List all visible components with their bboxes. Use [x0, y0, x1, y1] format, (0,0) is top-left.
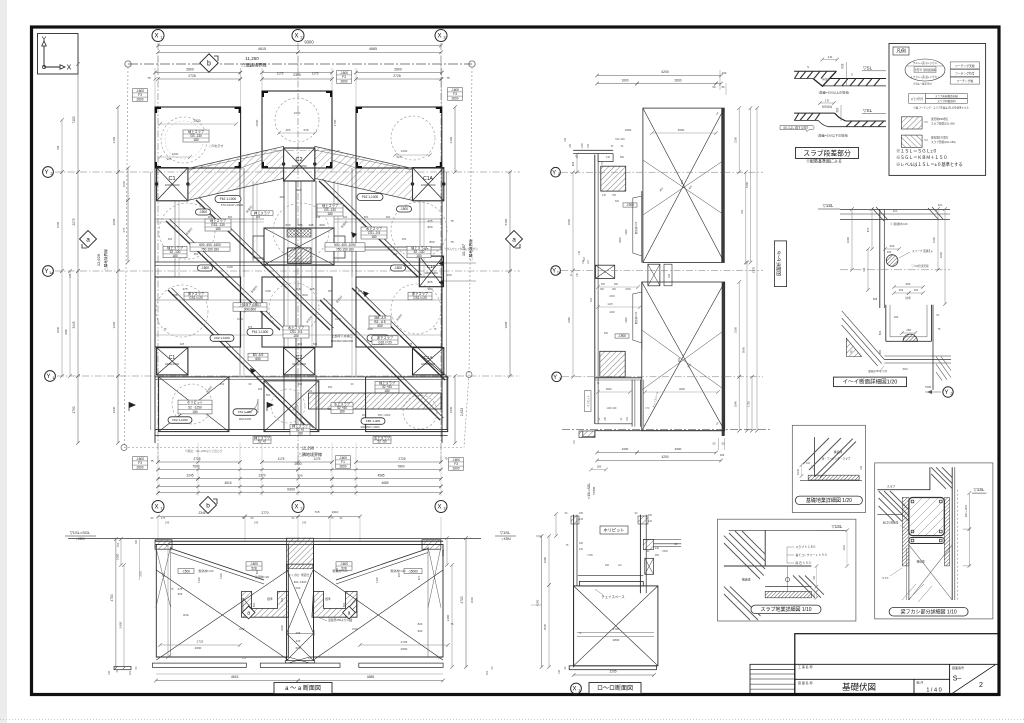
- svg-text:スラブ天端(1SL-150): スラブ天端(1SL-150): [931, 140, 956, 144]
- svg-text:7600: 7600: [192, 464, 199, 468]
- svg-text:1: 1: [160, 36, 162, 40]
- svg-text:600: 600: [397, 572, 401, 577]
- svg-text:100: 100: [720, 453, 725, 457]
- svg-text:2: 2: [300, 36, 302, 40]
- bottom grid mark X1: [152, 501, 164, 513]
- svg-text:3000: 3000: [679, 387, 685, 391]
- svg-text:▽1SL: ▽1SL: [832, 524, 843, 529]
- sec-aa hatch X2 column: [287, 538, 314, 564]
- svg-text:650: 650: [255, 357, 261, 361]
- svg-text:FB1 1-300: FB1 1-300: [366, 419, 380, 423]
- sec-aa center column: [286, 564, 288, 661]
- svg-text:506: 506: [178, 592, 183, 596]
- svg-text:▽SL: ▽SL: [863, 108, 873, 113]
- svg-text:1940: 1940: [449, 406, 453, 413]
- fukashi lower X: [909, 545, 952, 600]
- sec-aa left small pad: [114, 667, 131, 670]
- svg-text:2: 2: [979, 682, 983, 689]
- svg-text:450: 450: [677, 357, 681, 362]
- svg-text:1000: 1000: [227, 265, 233, 269]
- svg-text:100: 100: [860, 465, 863, 470]
- svg-text:600: 600: [162, 572, 166, 577]
- svg-text:2726: 2726: [393, 74, 401, 78]
- svg-text:2600: 2600: [451, 96, 458, 100]
- svg-text:断熱材t=20: 断熱材t=20: [634, 311, 638, 324]
- svg-text:2600: 2600: [339, 464, 346, 468]
- svg-text:室形号 宝樟連漢横: 室形号 宝樟連漢横: [914, 68, 936, 72]
- svg-text:(段差=150以上の場合): (段差=150以上の場合): [819, 89, 850, 94]
- svg-text:265: 265: [297, 223, 302, 227]
- svg-text:925: 925: [166, 157, 171, 161]
- svg-text:2370: 2370: [258, 474, 265, 478]
- svg-text:※図 フーチング・スラブ天端は1SL±0を基準とする: ※図 フーチング・スラブ天端は1SL±0を基準とする: [913, 106, 969, 110]
- svg-text:175: 175: [161, 516, 166, 520]
- svg-text:105: 105: [564, 137, 567, 142]
- svg-text:補強筋: 補強筋: [822, 77, 830, 81]
- svg-text:7600: 7600: [925, 385, 932, 389]
- svg-text:145: 145: [302, 521, 307, 525]
- svg-text:1600: 1600: [622, 447, 629, 451]
- svg-text:2295: 2295: [609, 670, 616, 674]
- slab label group 3: [317, 204, 343, 216]
- oval FB1 bottom right: [361, 418, 385, 425]
- interior beam h1: [155, 218, 264, 220]
- fukashi lower left verticals: [908, 545, 910, 600]
- svg-text:F62 1-1000: F62 1-1000: [220, 197, 237, 201]
- slab bed detail outer box: [718, 519, 856, 621]
- svg-text:3280: 3280: [64, 329, 68, 335]
- slab bed detail title: [751, 605, 821, 614]
- svg-text:180: 180: [172, 254, 178, 258]
- svg-text:F1: F1: [308, 656, 312, 660]
- svg-text:9300: 9300: [287, 488, 295, 492]
- svg-text:75: 75: [450, 219, 454, 223]
- svg-text:900x1600: 900x1600: [239, 417, 252, 421]
- label cluster a12: [253, 437, 271, 444]
- svg-text:180: 180: [192, 410, 198, 414]
- arrow mark b2: [250, 368, 256, 374]
- svg-text:Y: Y: [944, 390, 948, 396]
- label cluster a13: [373, 437, 391, 444]
- svg-text:クルシ+道 ホ+フカシ: クルシ+道 ホ+フカシ: [913, 61, 938, 65]
- svg-text:a: a: [86, 236, 90, 243]
- bottom slab left: [159, 377, 229, 432]
- detail i-i right vertical: [932, 305, 934, 390]
- svg-text:F62 1-1000: F62 1-1000: [214, 336, 230, 340]
- interior beam v5 low: [239, 277, 241, 376]
- svg-text:X: X: [67, 65, 72, 72]
- svg-text:535: 535: [313, 342, 318, 346]
- sec-aa right wall inner cross: [428, 547, 441, 608]
- svg-text:400: 400: [308, 389, 313, 393]
- svg-text:1600: 1600: [846, 236, 850, 243]
- svg-text:2920: 2920: [193, 119, 200, 123]
- svg-text:180: 180: [416, 254, 422, 258]
- road boundary line 11,250: [128, 63, 472, 65]
- svg-text:130: 130: [578, 250, 581, 255]
- svg-text:よフカシ+道 虚+ンウカシ: よフカシ+道 虚+ンウカシ: [910, 75, 940, 79]
- svg-text:75: 75: [446, 76, 450, 80]
- svg-text:1680: 1680: [543, 556, 547, 563]
- mid oval F61: [247, 329, 273, 336]
- bed diagonal beam lines: [803, 438, 856, 478]
- detail i-i Y2 circle: [943, 387, 953, 397]
- sec-aa hatch right column: [422, 540, 441, 549]
- svg-text:-1500: -1500: [201, 266, 209, 270]
- svg-text:265: 265: [295, 287, 300, 291]
- left dim chain x70: [69, 271, 71, 376]
- svg-text:850: 850: [393, 252, 398, 256]
- sec-aa sloped beam left: [171, 549, 264, 581]
- b-b Y2 gridline: [561, 171, 763, 173]
- svg-text:R3A: R3A: [183, 613, 189, 617]
- bottom dim row ticks: [156, 460, 159, 463]
- diagonal beam lower-mid: [320, 300, 440, 420]
- b-b left dims: [572, 172, 574, 270]
- svg-text:梁フカシ部分詳細図 1/10: 梁フカシ部分詳細図 1/10: [901, 609, 957, 616]
- svg-text:▽1SL=SGL: ▽1SL=SGL: [587, 483, 591, 500]
- ro-ro wall top hatch marks: [571, 516, 579, 524]
- svg-text:2345: 2345: [198, 511, 205, 515]
- svg-text:800: 800: [335, 567, 339, 572]
- svg-text:350: 350: [655, 554, 660, 557]
- svg-text:1420: 1420: [625, 229, 628, 235]
- svg-text:※レベルは１ＳＬ＝±０基準とする: ※レベルは１ＳＬ＝±０基準とする: [896, 161, 963, 168]
- interior beam v2: [252, 181, 254, 262]
- ro-ro slab band: [579, 582, 643, 586]
- sec-aa left vertical dims: [115, 539, 117, 668]
- svg-text:900: 900: [418, 629, 423, 633]
- svg-text:構造体: 構造体: [834, 450, 843, 454]
- svg-text:475: 475: [178, 587, 183, 591]
- svg-text:-15000: -15000: [408, 569, 418, 573]
- ro-ro left ground tick: [536, 535, 542, 537]
- b-b Y1a circle: [551, 266, 561, 276]
- svg-text:160: 160: [312, 597, 316, 602]
- level box F3 left: [133, 89, 148, 102]
- svg-text:断熱材t=20: 断熱材t=20: [199, 568, 214, 573]
- svg-text:ロ〜ロ断面図: ロ〜ロ断面図: [597, 684, 633, 692]
- svg-text:基礎伏図: 基礎伏図: [842, 682, 876, 692]
- fukashi title: [889, 608, 968, 617]
- svg-text:506: 506: [172, 293, 177, 297]
- b-b mid connector F63: [648, 264, 660, 286]
- svg-text:4725: 4725: [613, 627, 620, 631]
- svg-text:900: 900: [427, 225, 432, 229]
- svg-text:820: 820: [418, 622, 423, 626]
- b-b upper panel: [643, 108, 724, 262]
- vertical beam pair left: [239, 168, 241, 277]
- slab table A: [325, 243, 365, 251]
- diagonal beam UL-LR 2: [196, 200, 330, 330]
- scanned page left edge shading: [0, 0, 7, 723]
- svg-text:5100: 5100: [745, 181, 749, 188]
- svg-text:265: 265: [256, 215, 261, 219]
- svg-text:800: 800: [255, 569, 259, 574]
- svg-text:3160: 3160: [734, 326, 738, 333]
- svg-text:5060: 5060: [741, 346, 745, 353]
- svg-text:32A: 32A: [938, 203, 943, 207]
- svg-text:4685: 4685: [381, 481, 388, 485]
- svg-text:(段差=150以下の場合): (段差=150以下の場合): [818, 133, 849, 138]
- grid line X1: [157, 43, 159, 462]
- svg-text:地墫: 地墫: [905, 296, 911, 300]
- slab label box TL: [183, 130, 209, 142]
- svg-text:砕 石 ｔ５０: 砕 石 ｔ５０: [796, 561, 812, 565]
- diagonal beam C2 to C10: [319, 181, 418, 277]
- svg-text:1000x1050: 1000x1050: [292, 164, 307, 168]
- svg-text:825: 825: [571, 161, 575, 166]
- legend slab row: [909, 94, 926, 104]
- title block divider row2: [795, 678, 950, 680]
- detail i-i beam section: [886, 305, 932, 342]
- svg-text:750 150 180: 750 150 180: [336, 247, 354, 251]
- svg-text:7800: 7800: [397, 464, 404, 468]
- column footing C1A: [413, 168, 444, 201]
- pile dashed circle top-middle: [275, 98, 319, 142]
- sec-aa title: [274, 683, 332, 694]
- b-b view title vertical: [774, 241, 786, 287]
- pile dashed circle bottom-right: [403, 395, 437, 429]
- svg-text:2000: 2000: [140, 571, 143, 577]
- svg-text:475: 475: [182, 287, 187, 291]
- svg-text:870: 870: [866, 227, 870, 232]
- label cluster a7: [210, 335, 234, 342]
- svg-text:2600: 2600: [136, 97, 143, 101]
- fukashi stirrup second: [909, 538, 944, 544]
- svg-text:フーチング符号: フーチング符号: [955, 71, 975, 75]
- svg-text:C2: C2: [295, 157, 302, 163]
- slab table B: [190, 243, 230, 251]
- svg-text:250〜2900: 250〜2900: [378, 413, 391, 417]
- grid line X3: [440, 43, 442, 462]
- lower oval -1500 b: [391, 265, 406, 271]
- section marker b top: [200, 54, 218, 72]
- svg-text:2,633: 2,633: [460, 408, 464, 417]
- ro-ro big X box: [574, 586, 658, 666]
- sec-aa U beam left: [242, 591, 289, 617]
- detail i-i chain line: [840, 269, 950, 271]
- svg-text:180: 180: [813, 575, 816, 580]
- footing slab top-left: [155, 107, 241, 168]
- svg-text:F62 1-1000: F62 1-1000: [362, 195, 379, 199]
- svg-text:スラブ天端(1SL+50): スラブ天端(1SL+50): [931, 122, 955, 126]
- svg-text:F62: F62: [352, 627, 358, 631]
- svg-text:△印を示す: △印を示す: [208, 143, 223, 148]
- X axis arrow: [44, 66, 62, 68]
- detail i-i top slab lines: [840, 209, 950, 211]
- svg-text:2350: 2350: [293, 73, 301, 77]
- svg-text:ホリピット: ホリピット: [187, 400, 203, 405]
- beam line above bottom slabs: [155, 376, 448, 378]
- svg-text:▽1SL=SGL: ▽1SL=SGL: [70, 530, 91, 535]
- beam fukashi outer box: [875, 463, 993, 619]
- svg-text:工 事 名 称: 工 事 名 称: [798, 664, 813, 669]
- svg-text:2725: 2725: [197, 640, 204, 644]
- fukashi side strips: [902, 498, 909, 566]
- svg-text:4615: 4615: [231, 675, 239, 679]
- svg-text:528: 528: [251, 566, 257, 570]
- left dim chain x62: [61, 172, 63, 271]
- svg-text:スラブ ｔ１８０: スラブ ｔ１８０: [796, 545, 817, 549]
- svg-text:F3: F3: [242, 656, 246, 660]
- slab bed lower slab lines: [765, 586, 811, 588]
- svg-text:1175: 1175: [277, 72, 284, 76]
- slab label group 1: [205, 219, 231, 231]
- interior beam h2: [334, 218, 442, 220]
- svg-text:梁天端350増打: 梁天端350増打: [931, 117, 949, 121]
- slab bed wall vertical: [764, 530, 766, 566]
- svg-text:基礎地業詳細図 1/20: 基礎地業詳細図 1/20: [806, 497, 852, 504]
- svg-text:▽70#倍漢天端: ▽70#倍漢天端: [911, 264, 929, 268]
- svg-text:2: 2: [558, 172, 560, 176]
- svg-text:構造体: 構造体: [742, 577, 751, 582]
- central footing F1: [264, 228, 334, 265]
- svg-text:145: 145: [579, 518, 584, 521]
- right dim chain: [454, 107, 456, 172]
- svg-text:300 250〜2900: 300 250〜2900: [360, 425, 380, 429]
- svg-text:75: 75: [450, 240, 454, 244]
- svg-text:2725: 2725: [193, 457, 200, 461]
- pile dashed circle top-right: [391, 116, 435, 160]
- fukashi right verticals: [951, 467, 953, 600]
- fukashi top wall corner: [877, 467, 930, 489]
- svg-text:1750: 1750: [72, 406, 76, 413]
- svg-text:3445: 3445: [72, 321, 76, 328]
- slab label group 2: [251, 211, 273, 216]
- diagonal beam UL-LR 1: [166, 221, 280, 330]
- svg-text:4200: 4200: [661, 455, 668, 459]
- svg-text:C1A: C1A: [424, 355, 434, 360]
- svg-text:-1500: -1500: [199, 210, 207, 214]
- Y axis arrow: [43, 44, 45, 67]
- svg-text:梁天端670増打: 梁天端670増打: [931, 136, 949, 140]
- svg-text:1420: 1420: [219, 573, 223, 579]
- level box F3 right: [448, 88, 463, 101]
- svg-text:▽1SL: ▽1SL: [823, 203, 834, 208]
- svg-text:X: X: [294, 505, 298, 511]
- column footing C2: [284, 148, 315, 181]
- svg-text:2520: 2520: [543, 623, 547, 630]
- column footing C1: [157, 168, 188, 201]
- svg-text:75: 75: [147, 76, 151, 80]
- svg-text:1: 1: [559, 377, 561, 381]
- svg-text:4200: 4200: [661, 70, 669, 74]
- svg-text:2260: 2260: [567, 218, 571, 225]
- svg-text:1000x1000: 1000x1000: [421, 362, 435, 366]
- svg-text:2600: 2600: [340, 79, 347, 83]
- svg-text:F3: F3: [438, 656, 442, 660]
- svg-text:100: 100: [894, 315, 899, 319]
- svg-text:▽KBM: ▽KBM: [75, 537, 85, 541]
- svg-text:600: 600: [615, 200, 620, 203]
- svg-text:180: 180: [339, 410, 345, 414]
- svg-text:550: 550: [266, 393, 271, 397]
- svg-text:425: 425: [309, 287, 314, 291]
- svg-text:1000: 1000: [172, 152, 179, 156]
- svg-text:-1500: -1500: [182, 569, 190, 573]
- corner marks top-left footing: [156, 108, 161, 113]
- svg-text:2600: 2600: [452, 466, 459, 470]
- oval label F62 right: [357, 194, 383, 201]
- pile dashed circle top-left: [161, 117, 207, 163]
- svg-text:1600: 1600: [621, 79, 628, 83]
- legend hatch sample 2: [901, 135, 922, 147]
- interior beam v4: [419, 200, 421, 277]
- svg-text:スラブ: スラブ: [887, 485, 896, 489]
- svg-text:チェイスペース: チェイスペース: [601, 594, 625, 599]
- svg-text:524: 524: [583, 256, 586, 261]
- svg-text:a 〜 a 断面図: a 〜 a 断面図: [285, 684, 321, 692]
- svg-text:925: 925: [180, 342, 185, 346]
- svg-text:600: 600: [296, 646, 301, 650]
- slab bed lower diagonals right: [793, 576, 824, 598]
- label cluster a10: [168, 417, 192, 424]
- interior beam v6 low: [355, 277, 357, 376]
- svg-text:▽SL: ▽SL: [863, 66, 873, 71]
- svg-text:32A: 32A: [893, 209, 898, 213]
- svg-text:1600: 1600: [939, 251, 943, 258]
- svg-text:4700: 4700: [460, 596, 464, 603]
- svg-text:1600: 1600: [843, 545, 846, 551]
- svg-text:2600: 2600: [674, 79, 681, 83]
- svg-text:800: 800: [228, 215, 233, 219]
- section marker a left: [80, 231, 97, 248]
- column footing C1 row2: [157, 348, 188, 375]
- svg-text:1175: 1175: [314, 457, 321, 461]
- svg-text:1000x1000: 1000x1000: [424, 271, 438, 275]
- oval F61 bottom: [233, 409, 257, 416]
- oval 1500 left: [196, 209, 211, 215]
- svg-text:2300: 2300: [280, 625, 284, 631]
- bed vertical member: [814, 437, 816, 477]
- vertical beam pair center: [295, 181, 297, 430]
- svg-text:▽1SL: ▽1SL: [974, 487, 985, 492]
- title block outer: [795, 634, 999, 695]
- plan outer wall left: [154, 168, 156, 443]
- svg-text:700: 700: [740, 209, 744, 214]
- hatch door mark D left: [129, 402, 136, 408]
- svg-text:2: 2: [950, 392, 952, 396]
- svg-text:100: 100: [485, 670, 489, 675]
- pile dashed circle mid-right: [391, 202, 447, 258]
- b-b inner wall edge lower: [641, 282, 643, 349]
- svg-text:1948: 1948: [335, 317, 341, 321]
- svg-text:C2: C2: [296, 355, 303, 361]
- svg-text:あばら筋補強: あばら筋補強: [883, 521, 899, 525]
- detail i-i wall vertical: [879, 209, 881, 308]
- svg-text:140: 140: [579, 548, 584, 551]
- left boundary line 12,629: [124, 67, 128, 448]
- slab bed circle mark: [786, 578, 790, 582]
- sec-aa marker a2: [343, 606, 356, 619]
- label cluster a11: [290, 425, 310, 436]
- interior beam h4: [301, 299, 442, 301]
- left dim chain inner: [117, 107, 119, 172]
- svg-text:200: 200: [890, 244, 895, 248]
- plan outer wall right: [441, 168, 443, 443]
- legend box 凡例: [889, 44, 986, 176]
- lower right label: [369, 316, 391, 328]
- svg-text:F62 1-1000: F62 1-1000: [172, 418, 188, 422]
- svg-text:2: 2: [300, 507, 302, 511]
- sec-aa crosshatch strip: [288, 564, 313, 569]
- svg-text:100: 100: [806, 462, 811, 465]
- svg-text:100: 100: [887, 250, 892, 254]
- svg-text:9300: 9300: [304, 40, 314, 45]
- svg-text:435: 435: [308, 223, 313, 227]
- svg-text:180: 180: [297, 432, 303, 436]
